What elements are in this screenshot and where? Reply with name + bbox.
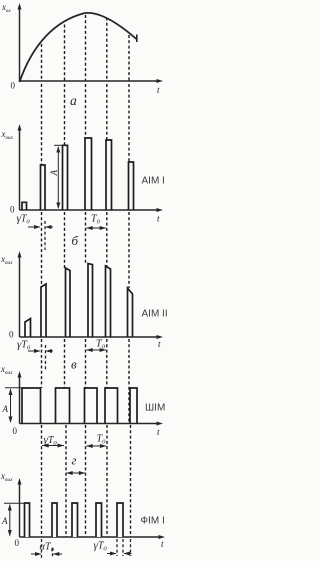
svg-text:ШІМ І: ШІМ І <box>145 403 167 414</box>
svg-text:б: б <box>72 233 79 248</box>
svg-text:0: 0 <box>13 426 18 436</box>
svg-text:а: а <box>70 93 77 108</box>
svg-text:0: 0 <box>15 538 20 548</box>
svg-text:A: A <box>2 404 9 414</box>
svg-text:ФІМ І: ФІМ І <box>141 516 165 527</box>
svg-text:г: г <box>72 454 77 468</box>
svg-text:АІМ І: АІМ І <box>142 176 165 187</box>
svg-text:A: A <box>1 516 8 526</box>
svg-text:АІМ ІІ: АІМ ІІ <box>142 309 168 320</box>
svg-text:0: 0 <box>10 205 15 215</box>
svg-text:в: в <box>71 357 77 372</box>
svg-text:0: 0 <box>9 330 14 340</box>
svg-text:A: A <box>49 170 59 177</box>
svg-text:0: 0 <box>11 81 16 91</box>
